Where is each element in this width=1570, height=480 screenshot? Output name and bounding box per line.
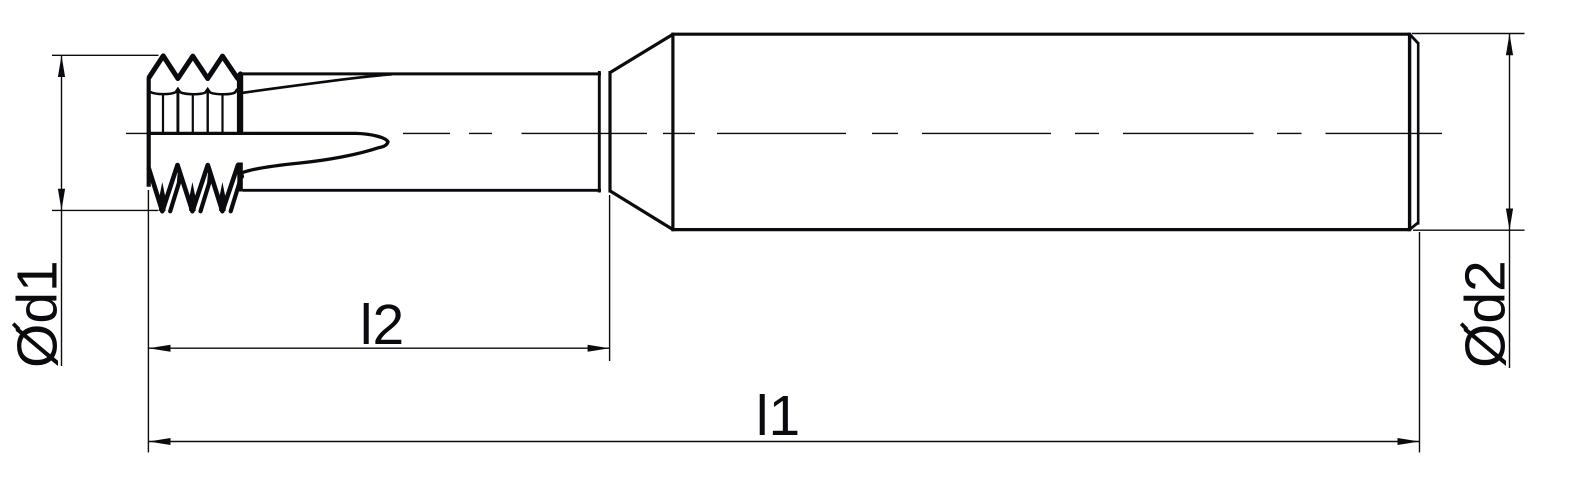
center line (dash-dot axis) bbox=[126, 132, 1442, 134]
valley crest wedge 1 bbox=[159, 182, 166, 211]
thread end bar (upper) bbox=[237, 74, 243, 134]
thread end bar (lower) bbox=[237, 163, 243, 192]
arrow d1 down bbox=[58, 189, 65, 211]
neck bottom outline bbox=[243, 189, 601, 192]
thread flank line 1 bbox=[162, 94, 164, 134]
shank start edge bbox=[671, 33, 674, 232]
shank end chamfer bottom bbox=[1410, 223, 1418, 230]
valley crest wedge 3 bbox=[219, 182, 226, 211]
arrow l2 left bbox=[149, 345, 171, 352]
thread flank line 2 bbox=[176, 90, 179, 135]
svg-text:l2: l2 bbox=[360, 293, 404, 357]
arrow d1 up bbox=[58, 55, 65, 77]
shank top outline bbox=[672, 33, 1410, 36]
cone top line bbox=[610, 34, 673, 72]
tooth 2 trailing edge line bbox=[201, 175, 210, 212]
svg-text:Ød1: Ød1 bbox=[6, 260, 70, 368]
upper flute edge curve bbox=[243, 74, 392, 93]
extension line l2 right bbox=[609, 195, 611, 361]
tooth 1 trailing edge line bbox=[170, 175, 179, 212]
dimension line Od1 bbox=[61, 55, 63, 366]
shank end face bbox=[1417, 42, 1420, 225]
valley crest wedge 2 bbox=[189, 182, 196, 211]
cutter end face (left edge) bbox=[147, 78, 151, 187]
shank end chamfer top bbox=[1410, 34, 1418, 43]
shank bottom outline bbox=[672, 228, 1410, 231]
arrow l1 right bbox=[1398, 438, 1420, 445]
neck top outline bbox=[239, 72, 602, 75]
thread flank line 3 bbox=[192, 94, 194, 134]
slash extension Od1 bbox=[13, 324, 19, 330]
neck end edge 2 bbox=[608, 71, 611, 193]
slash extension Od2 bbox=[1461, 324, 1467, 330]
dimension line l1 bbox=[149, 441, 1420, 443]
dimension line l2 bbox=[149, 347, 610, 349]
relief zigzag main (bottom thread) bbox=[149, 165, 242, 211]
arrow d2 down bbox=[1506, 209, 1513, 231]
extension line d2 bottom bbox=[1413, 229, 1525, 231]
thread root scalloped line bbox=[150, 89, 237, 95]
extension line l left bbox=[147, 190, 149, 453]
arrow l2 right bbox=[588, 345, 610, 352]
cone bottom line bbox=[610, 191, 673, 230]
thread crest zigzag (top profile) bbox=[149, 56, 240, 79]
svg-text:Ød2: Ød2 bbox=[1454, 260, 1518, 368]
dimension line Od2 bbox=[1509, 34, 1511, 369]
shank end chamfer edge bbox=[1408, 33, 1411, 232]
arrow d2 up bbox=[1506, 34, 1513, 56]
lower flute edge with rounded tip bbox=[149, 133, 388, 172]
extension line l1 right bbox=[1419, 232, 1421, 453]
svg-text:l1: l1 bbox=[756, 384, 800, 448]
neck end edge 1 bbox=[598, 71, 601, 193]
extension line d1 bottom bbox=[52, 209, 159, 211]
extension line d2 top bbox=[1412, 33, 1525, 35]
tooth 3 trailing edge line bbox=[231, 175, 240, 212]
thread flank line 4 bbox=[206, 90, 208, 135]
arrow l1 left bbox=[149, 438, 171, 445]
extension line d1 top bbox=[52, 54, 159, 56]
thread flank line 5 bbox=[221, 94, 223, 134]
